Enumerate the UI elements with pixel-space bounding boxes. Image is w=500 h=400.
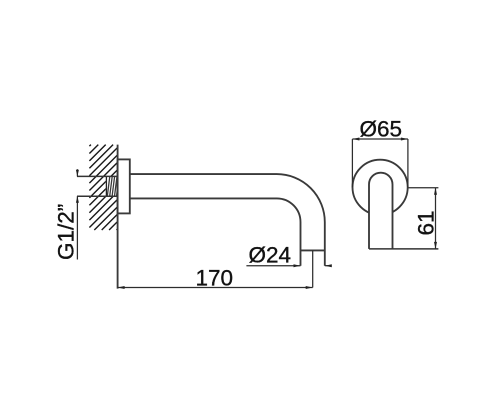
svg-text:Ø65: Ø65 — [360, 117, 403, 142]
wall surface line / 170 extension line — [117, 145, 119, 289]
spout tube side view inner line — [130, 198, 301, 265]
front view tube — [369, 173, 393, 249]
61 dimension top extension line — [409, 187, 439, 189]
G1/2 dimension leader / lower arrow — [76, 196, 79, 259]
wall hatching — [89, 145, 117, 230]
spout tube end face — [301, 249, 325, 251]
thread outline top line — [77, 175, 118, 177]
61 dimension line — [434, 188, 437, 249]
O65 left extension line — [351, 139, 353, 187]
O24 dimension line — [246, 264, 331, 267]
170 extension line at spout end — [312, 250, 314, 287]
170 dimension line — [118, 286, 313, 289]
O65 right extension line — [407, 139, 409, 187]
front view tube bottom / 61 extension line — [369, 248, 438, 250]
O65 dimension line — [352, 138, 408, 141]
svg-text:61: 61 — [414, 210, 439, 235]
thread outline bottom line — [77, 195, 118, 197]
svg-text:Ø24: Ø24 — [249, 243, 292, 268]
G1/2 dimension upper arrow — [76, 169, 79, 176]
spout tube side view outer line — [130, 174, 325, 266]
thread section with hatch — [106, 176, 118, 196]
front view outer circle (flange) — [353, 160, 408, 215]
svg-text:170: 170 — [196, 266, 234, 291]
svg-text:G1/2”: G1/2” — [53, 204, 78, 260]
flange (escutcheon) side view — [118, 159, 130, 213]
